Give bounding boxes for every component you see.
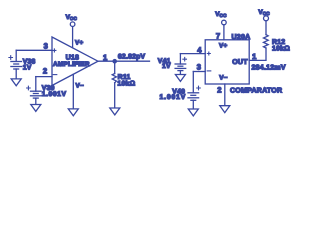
wire pin 2 <box>36 76 52 78</box>
svg-text:CC: CC <box>70 16 78 21</box>
comparator U20A <box>205 40 249 84</box>
source V40 1.001V <box>160 72 201 109</box>
svg-text:1V: 1V <box>23 64 32 71</box>
resistor R12 10k <box>264 21 291 52</box>
wire pin 4 <box>180 53 205 55</box>
svg-text:CC: CC <box>263 11 271 16</box>
ground (V-) <box>68 109 78 116</box>
svg-text:CC: CC <box>220 13 228 18</box>
svg-text:AMPLIFIER: AMPLIFIER <box>53 61 90 68</box>
svg-text:V+: V+ <box>75 39 83 46</box>
svg-text:284.12mV: 284.12mV <box>252 65 286 72</box>
svg-text:3: 3 <box>197 63 201 72</box>
wire pin 3 <box>193 71 205 73</box>
junction <box>112 59 117 64</box>
op-amp U18 AMPLIFIER <box>52 37 98 90</box>
svg-text:V+: V+ <box>219 42 227 49</box>
wire pin 2 <box>224 84 226 105</box>
svg-text:10kΩ: 10kΩ <box>117 80 135 87</box>
resistor R11 10k <box>112 61 135 107</box>
svg-text:1V: 1V <box>162 63 171 70</box>
ground (pin 2) <box>220 106 230 113</box>
source V41 1V <box>158 54 187 74</box>
node VCC (amplifier supply) <box>66 14 78 26</box>
ground (V39) <box>31 105 41 112</box>
wire pin 3 <box>16 49 52 51</box>
ground (V38) <box>11 79 21 86</box>
svg-text:COMPARATOR: COMPARATOR <box>230 88 282 95</box>
svg-text:2: 2 <box>217 85 221 94</box>
svg-text:62.82pV: 62.82pV <box>118 53 146 60</box>
ground (R11) <box>110 108 120 115</box>
svg-text:OUT: OUT <box>232 59 248 66</box>
wire V+ supply <box>72 27 74 48</box>
node VCC (R12 pull-up) <box>258 9 270 21</box>
wire output <box>98 60 150 62</box>
svg-text:1: 1 <box>103 53 108 62</box>
svg-text:U20A: U20A <box>232 34 251 41</box>
ground (V41) <box>175 75 185 82</box>
node VCC (comparator supply) <box>215 11 227 25</box>
source V39 1.001V <box>27 77 67 104</box>
wire output to R12 <box>249 48 266 60</box>
wire pin 7 <box>223 25 225 40</box>
svg-text:V−: V− <box>219 75 227 82</box>
ground (V40) <box>188 109 198 116</box>
wire V- supply <box>72 74 74 108</box>
svg-text:10kΩ: 10kΩ <box>272 45 290 52</box>
svg-text:1.001V: 1.001V <box>42 91 67 98</box>
svg-text:V−: V− <box>76 83 84 90</box>
svg-text:2: 2 <box>43 66 47 75</box>
svg-text:3: 3 <box>44 41 48 50</box>
svg-text:1.001V: 1.001V <box>160 94 186 101</box>
source V38 1V <box>9 50 36 78</box>
